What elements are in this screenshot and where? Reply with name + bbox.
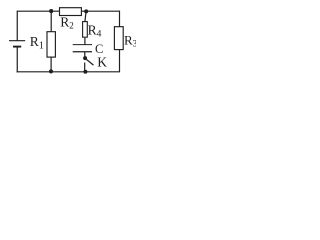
node junction bottom-left — [49, 69, 53, 73]
wire left upper (battery top lead) — [16, 11, 18, 41]
wire R1 branch top — [50, 11, 52, 32]
svg-text:R1: R1 — [30, 34, 44, 52]
capacitor C bottom plate — [73, 51, 92, 53]
resistor R4 body — [83, 22, 88, 38]
wire R4 to capacitor — [84, 38, 86, 45]
svg-text:R3: R3 — [124, 32, 136, 48]
svg-text:R4: R4 — [88, 22, 102, 39]
switch K lower contact stub — [84, 63, 86, 72]
wire right upper — [119, 11, 121, 27]
battery short thick plate — [13, 46, 21, 48]
node junction bottom-right — [83, 70, 87, 74]
wire left lower (battery bottom lead) — [16, 47, 18, 73]
wire R4 branch top — [85, 11, 86, 22]
svg-text:K: K — [97, 55, 107, 70]
wire R1 branch bottom — [50, 57, 52, 72]
svg-text:R2: R2 — [60, 14, 74, 30]
wire bottom — [17, 71, 120, 73]
wire top — [17, 10, 119, 12]
node junction top-left — [49, 9, 53, 13]
wire right lower — [119, 50, 121, 72]
resistor R2 body — [60, 8, 82, 16]
wire capacitor to switch pivot — [84, 52, 86, 57]
resistor R3 body — [114, 27, 123, 50]
node junction top-right — [84, 9, 88, 13]
switch K blade — [87, 60, 94, 66]
battery long plate — [9, 40, 25, 42]
switch K pivot dot — [83, 56, 87, 60]
capacitor C top plate — [73, 44, 92, 46]
resistor R1 body — [47, 32, 55, 57]
